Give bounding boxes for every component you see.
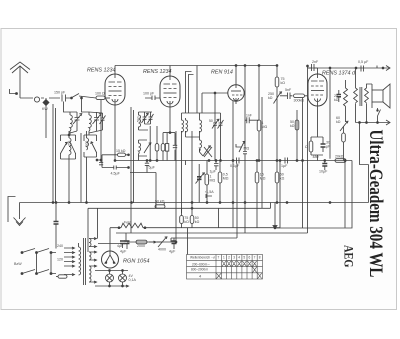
wire v245 <box>244 66 246 234</box>
wire v297 <box>296 120 298 161</box>
value labels <box>14 60 369 282</box>
resistor 300k horizontal <box>294 94 305 98</box>
wire table feed <box>187 228 189 255</box>
wire top bus right <box>308 67 390 69</box>
RGN anode wire <box>98 244 122 252</box>
pot 4000 diagonal <box>158 237 167 247</box>
wire h238 <box>171 164 237 243</box>
svg-text:RGN 1054: RGN 1054 <box>123 259 149 265</box>
svg-text:10µF: 10µF <box>319 170 328 174</box>
svg-text:Feld: Feld <box>124 221 131 225</box>
wire tc2 top/bottom <box>89 112 103 133</box>
wire v365 corner <box>368 165 370 203</box>
svg-text:2: 2 <box>228 256 230 260</box>
variable capacitor 1 <box>73 112 82 131</box>
switch IF2 <box>144 143 151 153</box>
svg-text:2nF: 2nF <box>312 60 319 64</box>
svg-text:4µF: 4µF <box>117 244 124 248</box>
svg-text:RENS 1234: RENS 1234 <box>87 68 115 74</box>
resistor 1M vertical <box>205 174 209 185</box>
svg-text:4µF: 4µF <box>169 250 176 254</box>
filter line <box>127 241 176 243</box>
svg-text:Ω: Ω <box>305 145 308 149</box>
ground <box>19 203 21 220</box>
svg-text:5µF: 5µF <box>149 166 156 170</box>
resistor 15k <box>118 153 126 156</box>
svg-text:0,5 µF: 0,5 µF <box>358 60 369 64</box>
svg-text:20kΩ: 20kΩ <box>335 155 344 159</box>
output transformer <box>354 68 372 123</box>
switch X pair <box>204 147 212 157</box>
capacitor 150pF <box>62 95 66 102</box>
svg-text:700: 700 <box>68 140 72 146</box>
stub left bottom <box>8 197 16 223</box>
svg-text:‹1,5A: ‹1,5A <box>205 190 214 194</box>
main bus <box>20 202 369 204</box>
pot 250k diagonal <box>274 91 282 104</box>
svg-text:kΩ: kΩ <box>336 120 341 124</box>
svg-text:BzW: BzW <box>14 262 22 266</box>
mains switch <box>21 249 56 275</box>
switch on antenna line <box>71 94 79 99</box>
tuned circuit 2 coil <box>89 112 91 135</box>
svg-text:480: 480 <box>313 155 319 159</box>
IF coil 1 <box>139 112 149 130</box>
wire V1 cathode down <box>114 105 116 161</box>
svg-text:1µF: 1µF <box>210 170 217 174</box>
tube V3 electrodes <box>231 85 242 101</box>
wire v352 <box>351 161 353 203</box>
svg-text:kΩ: kΩ <box>184 220 189 224</box>
capacitor 1nF link <box>245 117 259 123</box>
svg-text:RENS 1234: RENS 1234 <box>143 69 171 75</box>
svg-text:800–2000 m: 800–2000 m <box>191 268 208 272</box>
svg-text:0,1µF: 0,1µF <box>230 164 240 168</box>
capacitor right small <box>173 145 177 147</box>
capacitor 0.5uF top right <box>361 66 364 72</box>
svg-text:500: 500 <box>137 116 141 122</box>
IF coil 2 <box>139 140 148 156</box>
svg-text:100 Ω: 100 Ω <box>95 92 105 96</box>
V3 cathode down <box>233 101 236 228</box>
resistor 50k horizontal in bus <box>155 205 165 208</box>
wire h172.5 <box>130 173 156 209</box>
wire drops to tuned circuits <box>64 98 90 112</box>
wire verticals from tuned circuits <box>80 133 82 203</box>
coil choke on antenna <box>34 97 39 102</box>
svg-text:300kΩ: 300kΩ <box>294 99 305 103</box>
svg-text:0,1A: 0,1A <box>129 278 137 282</box>
resistor 20k in bus <box>335 159 346 163</box>
switch below speaker <box>378 108 381 123</box>
svg-text:KW: KW <box>42 107 48 111</box>
fuse arrow 1.5A <box>206 194 212 198</box>
svg-text:200–600 m∼: 200–600 m∼ <box>192 263 210 267</box>
capacitor 4.5uF left <box>114 166 116 170</box>
wire v259 <box>258 66 260 161</box>
svg-text:MΩ: MΩ <box>210 179 216 183</box>
volume pot diagonal <box>239 141 245 152</box>
wire tc1 top/bottom <box>70 112 77 133</box>
wire top bus left <box>115 65 278 67</box>
fuse <box>58 275 67 278</box>
svg-text:2000: 2000 <box>137 244 145 248</box>
capacitor 100pF between V1 V2 <box>145 96 160 101</box>
svg-text:50 kΩ: 50 kΩ <box>155 199 165 203</box>
V4 cathode network <box>309 106 325 161</box>
tube2 cathode box <box>163 133 175 161</box>
svg-text:MΩ: MΩ <box>260 177 266 181</box>
resistor pair above h218 <box>180 216 184 224</box>
svg-text:15 kΩ: 15 kΩ <box>116 149 126 153</box>
wires osc cluster <box>182 113 221 213</box>
resistor 50k vertical right <box>275 172 279 183</box>
svg-text:4000: 4000 <box>158 248 166 252</box>
series cap in bus 1uF right <box>285 158 288 164</box>
arrow into pot <box>149 241 156 243</box>
grid bus <box>115 160 352 162</box>
wire v150 <box>149 126 151 161</box>
svg-text:1nF: 1nF <box>246 114 252 118</box>
svg-text:8: 8 <box>259 256 261 260</box>
resistor 75k vertical top <box>275 77 279 87</box>
resistor 0.5M vertical <box>218 172 222 183</box>
tube V1 electrodes <box>109 74 122 105</box>
secondary coils <box>89 238 97 284</box>
antenna <box>10 62 30 98</box>
tube V3 REN914 envelope <box>228 85 244 101</box>
tube V2 electrodes <box>164 76 177 107</box>
wire v218.5 <box>218 208 220 227</box>
tube V4 RENS1374d envelope <box>308 74 327 106</box>
svg-text:kΩ: kΩ <box>280 177 285 181</box>
trimmer caps IF1 <box>142 112 154 124</box>
svg-text:1: 1 <box>223 256 225 260</box>
wire v302 <box>302 98 304 228</box>
tube V1 RENS1234 envelope <box>105 74 125 105</box>
svg-text:7: 7 <box>218 256 220 260</box>
svg-text:150 pF: 150 pF <box>54 91 66 95</box>
speaker <box>372 84 390 108</box>
band coil 500 box <box>84 131 97 203</box>
RGN electrodes <box>105 251 116 264</box>
svg-text:120: 120 <box>57 258 63 262</box>
wire v330 <box>329 68 331 159</box>
resistor 100ohm top <box>96 96 105 100</box>
wire left vertical pair <box>53 104 56 203</box>
resistor 50k right upper <box>295 120 299 130</box>
variable capacitor 3 <box>100 113 106 130</box>
transformer primary coil <box>79 247 81 275</box>
wire bias loop left <box>101 155 103 168</box>
wire v176 <box>175 131 177 242</box>
svg-text:AEG: AEG <box>342 245 356 268</box>
wire antenna line <box>20 96 96 98</box>
svg-text:RENS 1374 d: RENS 1374 d <box>322 71 356 77</box>
svg-text:MΩ: MΩ <box>223 177 229 181</box>
voltage table <box>187 255 263 280</box>
wire h226 <box>110 161 280 244</box>
svg-text:kΩ: kΩ <box>268 96 273 100</box>
capacitor electrolytic at 199 <box>197 177 202 180</box>
wire h212 <box>88 97 271 252</box>
wire v156 <box>128 167 130 169</box>
resistor 2000 <box>136 240 147 244</box>
osc coil 2 <box>200 118 202 151</box>
wire h233 <box>116 96 308 242</box>
tube V4 electrodes <box>311 74 324 106</box>
wire v192 <box>191 131 193 208</box>
rectifier tube RGN1054 <box>102 251 119 268</box>
capacitor 1uF below bus <box>214 161 219 171</box>
capacitor 4uF filter right <box>172 241 177 244</box>
svg-text:MΩ: MΩ <box>262 125 268 129</box>
tuned circuit 1 coil <box>70 112 72 135</box>
field coil zigzag <box>121 223 143 228</box>
svg-text:4,5µF: 4,5µF <box>111 172 121 176</box>
svg-text:5: 5 <box>243 256 245 260</box>
svg-text:kΩ: kΩ <box>281 81 286 85</box>
svg-text:Wellenbereich ··∂: Wellenbereich ··∂ <box>190 256 215 260</box>
svg-text:5nF: 5nF <box>285 88 292 92</box>
wire V2 cathode down <box>169 107 171 133</box>
wire bottom speaker bus <box>356 122 391 124</box>
field resistor 25k zigzag <box>344 80 348 122</box>
resistor cathode bias <box>161 144 165 152</box>
band coil 700 box <box>61 131 76 203</box>
capacitor 4uF filter left <box>125 241 130 244</box>
wire v377 long <box>376 66 378 69</box>
wire mid vertical pair <box>131 107 134 233</box>
svg-text:240: 240 <box>57 244 63 248</box>
arrester <box>43 100 49 106</box>
series cap in bus 0.1uF <box>237 158 240 164</box>
svg-text:4µF: 4µF <box>120 250 127 254</box>
arrow junction 275 <box>273 226 277 229</box>
tube V2 RENS1234 envelope <box>160 76 180 107</box>
svg-text:7: 7 <box>254 256 256 260</box>
wire v257 low <box>256 203 258 228</box>
capacitor 5uF under bus <box>138 156 140 161</box>
wire v345 <box>344 161 346 228</box>
capacitor box mid <box>165 144 168 152</box>
wire V3 grid side <box>202 93 228 113</box>
variable capacitor 2 <box>93 112 102 131</box>
capacitor 5nF <box>283 93 293 100</box>
svg-text:50: 50 <box>209 119 213 123</box>
wire grid cap drops <box>115 66 236 86</box>
pot 60k right <box>340 121 348 131</box>
svg-text:Ultra-Geadem 304 WL: Ultra-Geadem 304 WL <box>365 130 386 278</box>
switch osc <box>203 146 211 156</box>
wire v181 osc <box>186 72 194 114</box>
capacitor 2nF <box>308 64 318 71</box>
svg-text:1µF: 1µF <box>281 164 288 168</box>
svg-text:MΩ: MΩ <box>244 147 250 151</box>
stub left top <box>10 89 17 94</box>
svg-text:3: 3 <box>233 256 235 260</box>
wire right box <box>275 203 352 229</box>
transformer taps <box>64 247 75 276</box>
svg-text:kΩ: kΩ <box>290 124 295 128</box>
wire V4 anode <box>317 68 319 74</box>
dial lamps <box>95 270 128 286</box>
resistor 15M vertical <box>255 172 259 183</box>
svg-text:kΩ: kΩ <box>195 220 200 224</box>
osc coil 1 <box>182 118 188 132</box>
capacitor 10uF below bus <box>322 164 327 167</box>
resistor 1Mohm grid leak <box>257 120 261 131</box>
tube labels <box>87 68 356 265</box>
svg-text:6: 6 <box>249 256 251 260</box>
padding capacitor <box>97 100 103 165</box>
wire bottom lamps <box>95 285 129 287</box>
terminal top right <box>386 66 390 71</box>
trimmers osc <box>212 119 224 129</box>
mains capacitor <box>54 222 59 225</box>
transformer core <box>84 238 86 285</box>
svg-text:100 pF: 100 pF <box>143 92 155 96</box>
capacitor 4uF near RGN <box>120 241 125 244</box>
svg-text:REN 914: REN 914 <box>211 70 233 76</box>
svg-text:kΩ: kΩ <box>334 98 339 102</box>
capacitor small 1uF left of field <box>337 95 342 97</box>
wire transformer top riser <box>97 208 99 238</box>
svg-text:500: 500 <box>85 140 89 146</box>
resistor outside left <box>155 144 159 152</box>
svg-text:4: 4 <box>238 256 240 260</box>
